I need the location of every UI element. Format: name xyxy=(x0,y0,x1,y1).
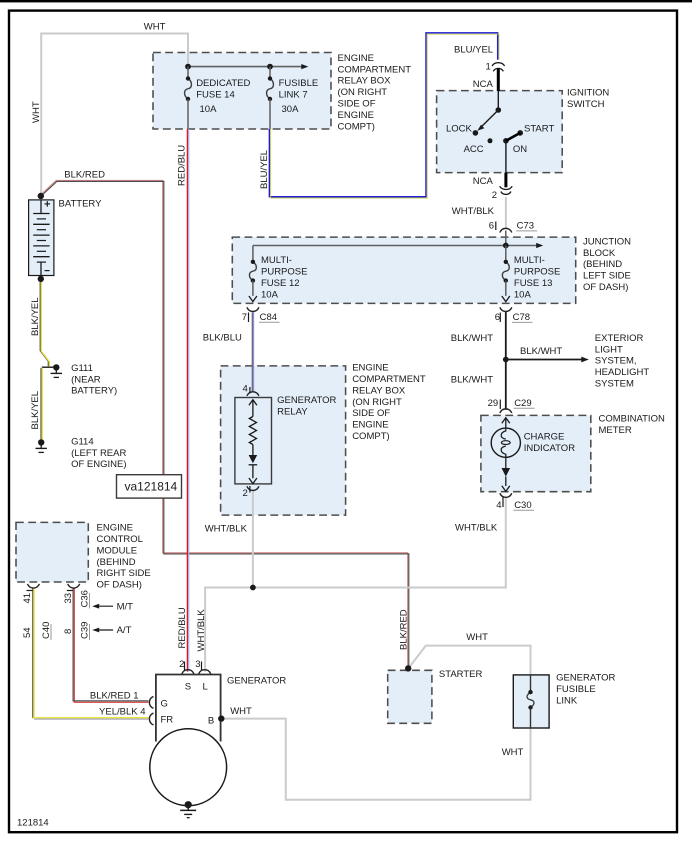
node fuse 14 top xyxy=(185,64,191,70)
svg-text:OF DASH): OF DASH) xyxy=(583,282,628,293)
label A/T xyxy=(117,625,132,636)
svg-text:WHT: WHT xyxy=(144,21,166,32)
label BLK/BLU xyxy=(203,333,242,344)
svg-text:COMPT): COMPT) xyxy=(338,121,375,132)
A/T arrow xyxy=(92,628,113,633)
svg-text:3: 3 xyxy=(195,659,200,670)
ECM pin 8 xyxy=(63,629,74,634)
svg-text:CHARGE: CHARGE xyxy=(524,432,565,443)
svg-text:4: 4 xyxy=(496,500,501,511)
svg-text:COMPARTMENT: COMPARTMENT xyxy=(338,64,412,75)
wire YEL/BLK ECM to generator FR xyxy=(33,588,149,719)
wire WHT/BLK generator relay 2 to junction xyxy=(252,490,254,587)
svg-text:ENGINE: ENGINE xyxy=(338,53,374,64)
svg-text:SIDE OF: SIDE OF xyxy=(352,408,390,419)
label WHT/BLK below C30 xyxy=(455,522,498,533)
label BLU/YEL top xyxy=(454,45,493,56)
connector C40 label xyxy=(41,622,52,640)
svg-text:SWITCH: SWITCH xyxy=(567,99,605,110)
svg-text:A/T: A/T xyxy=(117,625,132,636)
svg-text:FUSE 13: FUSE 13 xyxy=(514,278,553,289)
svg-text:BLK/YEL: BLK/YEL xyxy=(30,297,41,336)
pin 2 relay xyxy=(243,488,248,499)
svg-text:G114: G114 xyxy=(71,436,94,447)
label RED/BLU rotated upper xyxy=(177,145,188,186)
connector C39 label xyxy=(80,622,91,640)
svg-text:WHT/BLK: WHT/BLK xyxy=(455,522,498,533)
junction WHT/BLK xyxy=(250,585,256,591)
svg-text:COMBINATION: COMBINATION xyxy=(599,414,665,425)
ignition switch contacts xyxy=(473,91,523,173)
svg-text:BLOCK: BLOCK xyxy=(583,248,616,259)
svg-text:BLK/BLU: BLK/BLU xyxy=(203,333,242,344)
node fusible link 7 top xyxy=(267,64,273,70)
label C29 xyxy=(488,398,535,409)
generator fusible link xyxy=(513,675,549,728)
svg-text:ENGINE: ENGINE xyxy=(97,523,133,534)
svg-text:NCA: NCA xyxy=(473,79,494,90)
junction block bus with arrow xyxy=(253,231,543,249)
label WHT/BLK rotated xyxy=(196,609,207,652)
svg-text:LEFT SIDE: LEFT SIDE xyxy=(583,271,631,282)
svg-text:BATTERY: BATTERY xyxy=(59,199,103,210)
svg-text:(ON RIGHT: (ON RIGHT xyxy=(352,397,402,408)
svg-text:33: 33 xyxy=(63,593,74,604)
connector C36 label xyxy=(80,590,91,608)
label fuse 14 xyxy=(196,78,250,115)
label C73 xyxy=(489,221,537,232)
generator pin labels xyxy=(161,659,215,726)
label G111 xyxy=(71,363,117,397)
wire BLK/YEL battery to G111 xyxy=(40,281,54,367)
svg-text:(BEHIND: (BEHIND xyxy=(97,557,136,568)
charge indicator lamp xyxy=(491,418,520,492)
svg-text:WHT/BLK: WHT/BLK xyxy=(196,609,207,652)
svg-text:1: 1 xyxy=(486,61,491,72)
wire BLK/BLU C84 to generator relay pin 4 xyxy=(252,312,253,391)
svg-text:ENGINE: ENGINE xyxy=(352,363,388,374)
svg-text:LIGHT: LIGHT xyxy=(595,344,623,355)
svg-text:30A: 30A xyxy=(282,104,300,115)
label junction block xyxy=(583,236,631,293)
node battery positive xyxy=(38,193,44,199)
svg-text:FUSE 14: FUSE 14 xyxy=(196,90,235,101)
svg-text:8: 8 xyxy=(63,629,74,634)
svg-text:2: 2 xyxy=(492,190,497,201)
svg-text:RED/BLU: RED/BLU xyxy=(177,145,188,186)
label ignition switch xyxy=(567,87,609,109)
generator relay xyxy=(235,398,272,484)
svg-text:GENERATOR: GENERATOR xyxy=(277,395,336,406)
label generator fusible link xyxy=(556,673,615,707)
svg-text:4: 4 xyxy=(243,384,248,395)
svg-text:C29: C29 xyxy=(514,398,531,409)
svg-text:7: 7 xyxy=(242,312,247,323)
svg-text:EXTERIOR: EXTERIOR xyxy=(595,333,644,344)
connector C73 xyxy=(496,222,512,233)
svg-text:BLU/YEL: BLU/YEL xyxy=(259,150,270,189)
wire BLU/YEL fusible link 7 to ignition switch xyxy=(269,33,499,198)
label M/T xyxy=(117,602,134,613)
node generator B xyxy=(218,715,224,721)
svg-text:va121814: va121814 xyxy=(125,480,178,494)
svg-text:RELAY: RELAY xyxy=(277,407,308,418)
svg-text:PURPOSE: PURPOSE xyxy=(261,267,307,278)
svg-text:C84: C84 xyxy=(260,312,277,323)
svg-text:C78: C78 xyxy=(513,312,530,323)
wire BLK/WHT C78 to C29 xyxy=(505,311,507,409)
engine compartment relay box 1 (fuses) xyxy=(153,53,331,130)
svg-text:MODULE: MODULE xyxy=(97,545,138,556)
svg-text:INDICATOR: INDICATOR xyxy=(524,443,576,454)
battery xyxy=(29,200,54,276)
connector generator relay pin 4 xyxy=(247,387,259,396)
engine control module box xyxy=(16,522,88,582)
svg-text:ENGINE: ENGINE xyxy=(352,420,388,431)
svg-text:G111: G111 xyxy=(71,363,93,374)
svg-text:LINK: LINK xyxy=(556,695,578,706)
label engine compartment relay box 2 xyxy=(352,363,426,442)
label battery xyxy=(59,199,103,210)
svg-text:6: 6 xyxy=(489,221,494,232)
M/T arrow xyxy=(92,604,113,609)
dedicated fuse 14 10A xyxy=(185,67,192,129)
label BLK/YEL rotated lower xyxy=(30,391,41,430)
label NCA lower xyxy=(473,176,494,187)
svg-text:WHT/BLK: WHT/BLK xyxy=(205,524,248,535)
svg-text:G: G xyxy=(161,699,168,710)
connector ECM pin 33 xyxy=(67,584,80,591)
connector C78 xyxy=(500,307,512,322)
label G114 xyxy=(71,436,126,470)
svg-text:121814: 121814 xyxy=(17,817,49,828)
svg-text:(ON RIGHT: (ON RIGHT xyxy=(338,87,388,98)
fusible link 7 30A xyxy=(267,67,274,129)
junction block box xyxy=(232,237,575,303)
svg-text:41: 41 xyxy=(22,593,33,604)
svg-text:(LEFT REAR: (LEFT REAR xyxy=(71,448,126,459)
fuse box bus with arrow xyxy=(188,64,308,69)
label NCA upper xyxy=(473,79,494,90)
svg-text:BLK/YEL: BLK/YEL xyxy=(30,391,41,430)
generator xyxy=(150,675,227,806)
label charge indicator xyxy=(524,432,576,455)
connector generator pin 3 (L) xyxy=(199,662,211,674)
svg-text:HEADLIGHT: HEADLIGHT xyxy=(595,367,650,378)
svg-text:MULTI-: MULTI- xyxy=(261,255,292,266)
va121814 tag xyxy=(117,475,182,498)
connector generator FR xyxy=(149,713,153,725)
label fusible link 7 xyxy=(279,78,319,115)
engine compartment relay box 2 (generator relay) xyxy=(221,366,346,515)
svg-text:29: 29 xyxy=(488,398,499,409)
label WHT/BLK upper xyxy=(452,206,495,217)
wire BLK/YEL G111 to G114 xyxy=(41,368,42,440)
multi-purpose fuse 13 10A xyxy=(502,246,510,302)
svg-text:BLK/RED 1: BLK/RED 1 xyxy=(90,690,139,701)
label BLK/RED rotated starter xyxy=(399,609,410,650)
label YEL/BLK 4 xyxy=(99,707,145,718)
svg-text:START: START xyxy=(524,123,554,134)
svg-text:WHT/BLK: WHT/BLK xyxy=(452,206,495,217)
connector generator G xyxy=(149,696,153,708)
NCA lead lower xyxy=(504,173,507,188)
label generator xyxy=(227,676,286,687)
svg-text:6: 6 xyxy=(495,312,500,323)
connector generator pin 2 (S) xyxy=(182,662,194,674)
svg-text:SYSTEM: SYSTEM xyxy=(595,379,634,390)
svg-text:DEDICATED: DEDICATED xyxy=(196,78,250,89)
ground generator case xyxy=(180,801,196,818)
wire WHT/BLK C30 to generator L xyxy=(205,497,506,672)
svg-text:L: L xyxy=(203,682,208,693)
junction BLK/WHT xyxy=(503,357,509,363)
ground G111 xyxy=(51,364,62,377)
ECM pin 41 xyxy=(22,593,33,604)
label C78 xyxy=(495,312,533,323)
ground G114 xyxy=(36,439,47,452)
label C30 xyxy=(496,500,534,511)
svg-text:COMPT): COMPT) xyxy=(352,431,389,442)
wire BLK/RED battery to starter xyxy=(40,180,408,668)
node fuse 13 top xyxy=(503,243,509,249)
label WHT rotated xyxy=(31,101,42,123)
svg-text:BLU/YEL: BLU/YEL xyxy=(454,45,493,56)
label WHT top xyxy=(144,21,166,32)
svg-text:MULTI-: MULTI- xyxy=(514,255,545,266)
connector 2 inline xyxy=(500,186,513,194)
svg-text:S: S xyxy=(185,682,191,693)
ECM pin 54 xyxy=(22,627,33,638)
label C84 xyxy=(242,312,280,323)
svg-text:SIDE OF: SIDE OF xyxy=(338,99,376,110)
pin 4 relay xyxy=(243,384,248,395)
svg-text:ON: ON xyxy=(513,144,527,155)
connector C30 xyxy=(500,493,512,507)
svg-text:METER: METER xyxy=(599,425,632,436)
connector ECM pin 41 xyxy=(27,584,40,591)
label RED/BLU rotated lower xyxy=(177,607,188,648)
svg-text:RELAY BOX: RELAY BOX xyxy=(352,385,406,396)
label WHT at B xyxy=(230,706,252,717)
svg-text:GENERATOR: GENERATOR xyxy=(227,676,286,687)
label BLK/RED 1 xyxy=(90,690,139,701)
svg-text:C73: C73 xyxy=(517,221,534,232)
svg-text:54: 54 xyxy=(22,627,33,638)
wire WHT/BLK ignition switch 2 to C73 xyxy=(505,197,507,229)
svg-text:FUSIBLE: FUSIBLE xyxy=(279,78,319,89)
svg-text:STARTER: STARTER xyxy=(439,669,483,680)
svg-text:FUSIBLE: FUSIBLE xyxy=(556,684,596,695)
connector C29 xyxy=(500,400,512,414)
label exterior light system xyxy=(595,333,650,390)
svg-text:OF ENGINE): OF ENGINE) xyxy=(71,459,126,470)
label WHT above starter xyxy=(466,632,488,643)
svg-text:RELAY BOX: RELAY BOX xyxy=(338,76,392,87)
label BLK/RED battery xyxy=(64,169,105,180)
svg-text:2: 2 xyxy=(179,659,184,670)
svg-text:SYSTEM,: SYSTEM, xyxy=(595,356,637,367)
label 121814 xyxy=(17,817,49,828)
svg-text:FUSE 12: FUSE 12 xyxy=(261,278,300,289)
svg-text:ENGINE: ENGINE xyxy=(338,110,374,121)
label WHT/BLK relay out xyxy=(205,524,248,535)
label generator relay xyxy=(277,395,336,417)
wire BLK/WHT branch to exterior light system xyxy=(506,357,589,363)
connector 1 inline xyxy=(492,63,505,72)
pin 2 xyxy=(492,190,497,201)
svg-text:10A: 10A xyxy=(200,104,218,115)
svg-text:RED/BLU: RED/BLU xyxy=(177,607,188,648)
svg-text:B: B xyxy=(208,715,214,726)
svg-text:WHT: WHT xyxy=(502,747,524,758)
wire WHT battery to fuse box xyxy=(41,34,188,197)
svg-text:(NEAR: (NEAR xyxy=(71,374,101,385)
svg-text:JUNCTION: JUNCTION xyxy=(583,236,631,247)
svg-text:BLK/WHT: BLK/WHT xyxy=(451,375,493,386)
label ECM xyxy=(97,523,151,591)
combination meter box xyxy=(481,415,591,491)
label starter xyxy=(439,669,483,680)
svg-text:RIGHT SIDE: RIGHT SIDE xyxy=(97,568,151,579)
label BLU/YEL rotated xyxy=(259,150,270,189)
starter box xyxy=(388,670,432,723)
svg-text:BLK/WHT: BLK/WHT xyxy=(520,346,562,357)
label switch positions xyxy=(446,123,554,155)
node battery negative xyxy=(38,276,44,282)
ECM pin 33 xyxy=(63,593,74,604)
pin 1 xyxy=(486,61,491,72)
svg-text:NCA: NCA xyxy=(473,176,494,187)
multi-purpose fuse 12 10A xyxy=(249,246,257,302)
svg-text:IGNITION: IGNITION xyxy=(567,87,609,98)
svg-text:(BEHIND: (BEHIND xyxy=(583,259,622,270)
svg-text:PURPOSE: PURPOSE xyxy=(514,267,560,278)
node starter terminal xyxy=(405,665,411,671)
svg-text:COMPARTMENT: COMPARTMENT xyxy=(352,374,426,385)
svg-text:10A: 10A xyxy=(261,289,279,300)
label BLK/YEL rotated upper xyxy=(30,297,41,336)
svg-text:ACC: ACC xyxy=(464,144,484,155)
label WHT below fusible link xyxy=(502,747,524,758)
svg-text:OF DASH): OF DASH) xyxy=(97,580,142,591)
svg-text:LOCK: LOCK xyxy=(446,123,473,134)
connector C84 xyxy=(247,307,259,322)
svg-text:M/T: M/T xyxy=(117,602,134,613)
label combination meter xyxy=(599,414,665,436)
svg-text:2: 2 xyxy=(243,488,248,499)
label engine compartment relay box 1 xyxy=(338,53,412,132)
svg-text:BATTERY): BATTERY) xyxy=(71,386,117,397)
svg-text:WHT: WHT xyxy=(466,632,488,643)
svg-text:WHT: WHT xyxy=(230,706,252,717)
svg-text:GENERATOR: GENERATOR xyxy=(556,673,615,684)
svg-text:CONTROL: CONTROL xyxy=(97,534,143,545)
connector generator relay pin 2 xyxy=(247,486,259,493)
label fuse 13 xyxy=(514,255,560,300)
svg-text:BLK/RED: BLK/RED xyxy=(64,169,105,180)
wire BLK/RED ECM to generator G xyxy=(73,588,148,702)
svg-text:BLK/WHT: BLK/WHT xyxy=(451,333,493,344)
svg-text:C30: C30 xyxy=(514,500,531,511)
svg-text:YEL/BLK 4: YEL/BLK 4 xyxy=(99,707,145,718)
NCA lead upper xyxy=(497,68,500,91)
svg-text:BLK/RED: BLK/RED xyxy=(399,609,410,650)
page top rule xyxy=(0,0,692,2)
ignition switch box xyxy=(437,91,563,173)
labels BLK/WHT xyxy=(451,333,563,386)
label fuse 12 xyxy=(261,255,307,300)
svg-text:WHT: WHT xyxy=(31,101,42,123)
svg-text:FR: FR xyxy=(161,715,174,726)
svg-text:LINK 7: LINK 7 xyxy=(279,90,308,101)
wire RED/BLU fuse 14 to generator S xyxy=(187,129,188,672)
svg-text:10A: 10A xyxy=(514,289,532,300)
wire WHT generator B to fusible link and starter xyxy=(222,646,531,800)
